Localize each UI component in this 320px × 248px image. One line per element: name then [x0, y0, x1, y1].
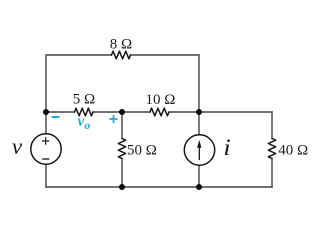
resistor 5-ohm zigzag (middle rail left): [75, 108, 94, 116]
wire top-right segment: 8-ohm resistor to right corner down to node C: [131, 55, 200, 112]
wire current source branch top: node C to source: [198, 112, 200, 135]
voltage source minus mark: [42, 158, 49, 160]
current source arrowhead: [197, 140, 201, 148]
wire left rail: voltage source bottom to bottom rail: [45, 164, 47, 187]
svg-text:40 Ω: 40 Ω: [278, 142, 308, 158]
node D dot (122,187): [119, 184, 125, 190]
cyan minus mark (left of v_o): [52, 116, 60, 118]
current source i circle: [184, 135, 214, 165]
node E dot (199,187): [196, 184, 202, 190]
wire middle rail: 10-ohm to node C: [169, 111, 199, 113]
svg-text:i: i: [223, 135, 231, 160]
wire right rail top: corner to 40-ohm: [271, 112, 273, 139]
node A dot (46,112): [43, 109, 49, 115]
node B dot (122,112): [119, 109, 125, 115]
resistor 10-ohm zigzag (middle rail right): [150, 108, 169, 116]
wire 50-ohm branch bottom: resistor to node D: [121, 159, 123, 188]
resistor 8-ohm zigzag (top rail): [112, 51, 131, 59]
wire middle rail: node C to right corner: [199, 111, 272, 113]
voltage source plus mark: [42, 137, 49, 144]
wire 50-ohm branch top: node B to resistor: [121, 112, 123, 139]
node C dot (199,112): [196, 109, 202, 115]
wire bottom rail: [46, 186, 272, 188]
svg-text:10 Ω: 10 Ω: [146, 92, 176, 108]
svg-text:8 Ω: 8 Ω: [110, 37, 132, 53]
svg-text:50 Ω: 50 Ω: [127, 143, 157, 159]
wire top-left segment: left rail top corner to 8-ohm resistor: [46, 55, 112, 112]
svg-text:v: v: [12, 134, 23, 159]
svg-text:5 Ω: 5 Ω: [73, 92, 95, 108]
wire left rail: node A down to voltage source top: [45, 112, 47, 134]
current source arrow shaft: [198, 147, 200, 161]
wire middle rail: 5-ohm to node B: [93, 111, 122, 113]
wire right rail bottom: 40-ohm to bottom rail: [271, 159, 273, 188]
svg-text:vo: vo: [78, 113, 91, 132]
wire middle rail: node B to 10-ohm: [122, 111, 150, 113]
cyan plus mark (right of v_o): [110, 115, 118, 123]
resistor 40-ohm zigzag (vertical, x=272): [268, 139, 275, 159]
wire middle rail left: node A to 5-ohm: [46, 111, 75, 113]
voltage source v circle: [31, 134, 61, 164]
resistor 50-ohm zigzag (vertical, x=122): [118, 139, 125, 159]
wire current source branch bottom: source to node E: [198, 165, 200, 187]
